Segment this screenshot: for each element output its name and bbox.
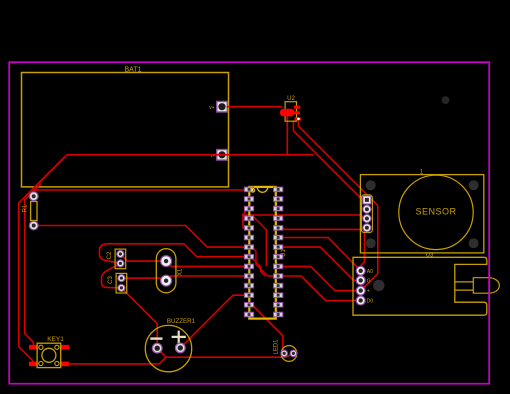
- module LED symbol: [455, 278, 500, 294]
- sensor pin 1: [363, 196, 371, 204]
- U2 body: [280, 109, 295, 117]
- U1 pin 27: [274, 197, 283, 202]
- wire U1 pin5R to sensor pin4: [283, 228, 367, 230]
- transistor U2 outline: [285, 102, 296, 122]
- U1 pin 20: [274, 264, 283, 269]
- svg-text:X1: X1: [178, 268, 184, 276]
- wire U1 pin3-pin5 bridge: [243, 210, 248, 228]
- wire U1 pin10R to module D0: [283, 276, 361, 301]
- wire V- to U1 pin1: [34, 189, 245, 191]
- wire X1.1 to U1 pin9: [166, 261, 245, 266]
- wire buzzer plus to U1 pin12: [180, 295, 245, 348]
- wire U1 bridge to sensor pin3: [243, 215, 367, 219]
- wire C3.2 to buzzer minus: [121, 288, 157, 348]
- svg-text:+: +: [367, 289, 370, 295]
- wire C2.1 to X1.1: [120, 254, 166, 261]
- svg-text:C2: C2: [107, 251, 113, 259]
- wire U1 pin13 to LED1.1: [245, 305, 284, 354]
- svg-text:v-: v-: [210, 153, 215, 159]
- C3 pad 1: [118, 275, 125, 282]
- key KEY1 body: [37, 343, 61, 367]
- resistor R1 body: [31, 202, 37, 221]
- wire U1 internal route upper: [252, 215, 267, 266]
- U1 pin 19: [274, 274, 283, 279]
- module pad D0: [356, 296, 365, 305]
- buzzer minus mark: [150, 337, 162, 339]
- C2 pad 1: [117, 250, 124, 257]
- sensor mounting hole 3: [366, 238, 376, 248]
- U1 pin 22: [274, 245, 283, 250]
- module pad +: [356, 286, 365, 295]
- wire C2.2 to C3.2 loop: [102, 263, 122, 288]
- module pad G: [356, 276, 365, 285]
- module pad A0: [356, 266, 365, 275]
- svg-text:v+: v+: [209, 105, 215, 111]
- U1 pin 12: [244, 293, 253, 298]
- svg-text:A0: A0: [367, 269, 373, 275]
- U1 pin 26: [274, 206, 283, 211]
- sensor mounting hole 2: [469, 180, 479, 190]
- U1 pin 4: [244, 216, 253, 221]
- U1 pin 3: [244, 206, 253, 211]
- U1 pin 18: [274, 283, 283, 288]
- U1 pin 2: [244, 197, 253, 202]
- wire R1 to U1 pin7: [34, 226, 245, 248]
- board outline: [9, 62, 489, 384]
- U1 pin 7: [244, 245, 253, 250]
- U1 pin 1: [244, 187, 253, 192]
- R1 pad 1: [29, 192, 38, 201]
- wire sensor pin4 to module A0: [361, 229, 367, 271]
- wire U1 pin6R to module A0: [283, 238, 361, 271]
- U1 pin 15: [274, 312, 283, 317]
- wire U1 pin9R to module plus: [283, 266, 361, 290]
- battery BAT1 outline: [22, 73, 229, 187]
- wire rail to KEY1 bottom-left: [19, 158, 64, 364]
- U1 pin 28: [274, 187, 283, 192]
- wire KEY1 to buzzer to LED1: [69, 353, 293, 364]
- buzzer pad 2: [176, 343, 186, 353]
- wire U2 body stem to V-: [286, 116, 288, 155]
- X1 pad 1: [161, 256, 172, 267]
- BAT1 pad V-: [217, 150, 228, 161]
- svg-text:D0: D0: [367, 299, 374, 305]
- U1 pin 13: [244, 303, 253, 308]
- wire V+ to U2: [227, 106, 281, 108]
- sensor connector outline: [361, 195, 372, 233]
- capacitor C3 body: [116, 273, 127, 293]
- wire X1.2 to U1 pin10: [166, 276, 245, 281]
- U1 pin 11: [244, 283, 253, 288]
- svg-text:LED1: LED1: [274, 339, 280, 355]
- LED1 pad 1: [281, 350, 288, 357]
- wire V- net main: [34, 155, 313, 196]
- svg-text:BUZZER1: BUZZER1: [167, 318, 196, 325]
- svg-text:KEY1: KEY1: [47, 336, 64, 343]
- U1 pin 10: [244, 274, 253, 279]
- sensor pin 3: [363, 214, 371, 222]
- C2 pad 2: [117, 260, 124, 267]
- sensor pin 2: [363, 205, 371, 213]
- wire U1 pin8 to C2.2: [99, 244, 244, 264]
- U2 pad 3: [295, 117, 301, 120]
- capacitor C2 body: [115, 249, 126, 269]
- buzzer plus mark: [172, 331, 186, 344]
- U1 pin 23: [274, 235, 283, 240]
- X1 pad 2: [161, 275, 172, 286]
- wire C3.1 to X1.2: [121, 278, 166, 281]
- svg-text:G: G: [367, 278, 371, 284]
- U1 pin 17: [274, 293, 283, 298]
- U1 pin 21: [274, 254, 283, 259]
- U1 pin1 marker: [251, 188, 255, 192]
- wire U2 to module plus: [298, 121, 377, 290]
- U1 pin 8: [244, 254, 253, 259]
- buzzer pad 1: [152, 343, 162, 353]
- U1 pin 25: [274, 216, 283, 221]
- svg-text:SENSOR: SENSOR: [415, 207, 456, 217]
- U1 pin 16: [274, 303, 283, 308]
- board outline over led: [488, 271, 490, 300]
- U1 pin 5: [244, 226, 253, 231]
- led LED1 outline: [281, 346, 297, 362]
- svg-text:R1: R1: [23, 204, 29, 212]
- sensor board U3 outline: [360, 175, 483, 253]
- U1 pin 9: [244, 264, 253, 269]
- svg-text:U2: U2: [287, 96, 295, 102]
- LED1 pad 2: [290, 350, 297, 357]
- sensor mounting hole 4: [469, 238, 479, 248]
- U1 pin 24: [274, 226, 283, 231]
- wire U1 internal route lower: [252, 248, 283, 277]
- wire U2 to sensor pin1: [293, 121, 367, 200]
- U1 pin 14: [244, 312, 253, 317]
- wire buzzer minus to junction: [157, 348, 166, 357]
- U2 pad 1: [294, 106, 300, 109]
- wire U1 pin7R to module G: [283, 247, 361, 280]
- buzzer BUZZER1 outline: [145, 325, 191, 371]
- wire U1 internal route lower2: [251, 257, 266, 276]
- sensor circle: [399, 175, 473, 249]
- R1 pad 2: [29, 221, 38, 230]
- module mounting hole: [373, 280, 384, 291]
- op IC U1 body: [249, 187, 275, 319]
- via hole: [442, 96, 450, 104]
- svg-text:C3: C3: [108, 276, 114, 284]
- sensor mounting hole 1: [366, 180, 376, 190]
- U2 pad 2: [293, 111, 300, 114]
- svg-text:BAT1: BAT1: [125, 67, 142, 74]
- module board outline: [353, 257, 487, 315]
- sensor pin 4: [363, 224, 371, 232]
- key KEY1 pads: [29, 345, 69, 366]
- U1 pin 6: [244, 235, 253, 240]
- wire rail to KEY1 top-left: [25, 184, 41, 346]
- crystal X1 body: [156, 249, 176, 293]
- BAT1 pad V+: [217, 101, 228, 112]
- C3 pad 2: [118, 284, 125, 291]
